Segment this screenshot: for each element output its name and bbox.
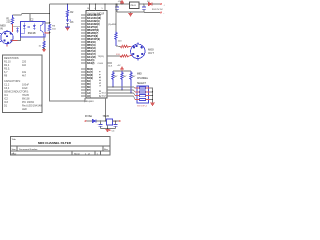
svg-text:RB6(12): RB6(12) [87,48,96,50]
svg-text:RB5(11): RB5(11) [87,45,96,47]
regulator IC1 78L05 TO92 [107,119,113,125]
svg-text:A5(: A5( [87,95,91,98]
wire RB6 row [107,92,134,94]
resistor R10 red [120,55,132,57]
svg-text:RA0/AN0(17): RA0/AN0(17) [87,14,101,17]
wire opto pins right [30,14,50,23]
diode D4 [92,119,96,122]
svg-text:78L05: 78L05 [103,116,110,118]
svg-text:B0(6): B0(6) [87,69,93,71]
svg-text:+5V: +5V [117,65,121,67]
svg-text:78L05: 78L05 [130,5,137,7]
pin stubs left IC3 [81,15,86,96]
wire RB5 row [107,89,134,91]
wire to regulator [96,120,107,122]
svg-text:SELECT: SELECT [137,83,147,85]
svg-text:A4(: A4( [87,92,91,95]
ground indicator [65,27,70,31]
wire battery input [87,120,93,122]
IC3 PIC16F84 microcontroller [86,11,107,99]
wire RB7 row [107,95,134,97]
pin stub right OSC [107,62,112,64]
pin labels left IC3 [87,14,101,98]
svg-text:RB1/RX(7): RB1/RX(7) [87,33,98,35]
wire DIN pin stubs [7,41,18,47]
wire regulator out [113,120,120,122]
resistor R3 pull-up on feed [48,24,50,30]
wire DC return [144,12,161,14]
svg-text:4k7: 4k7 [123,76,127,78]
resistor R4 pulldown [43,41,45,48]
wire RB4 row [107,86,134,88]
wire opto top feed [13,14,50,16]
ground top power [128,12,133,17]
svg-text:RA3(2): RA3(2) [87,62,95,65]
label MIDI CHANNEL SELECT [137,74,149,85]
diode D1 protection [16,27,19,33]
svg-text:D1: D1 [4,105,8,108]
regulator IC4 78L05 box [130,2,140,9]
pin stubs top IC3 [90,4,106,11]
power VCC symbol top [121,1,124,4]
resistor R6 [121,71,123,90]
svg-text:RA2(1): RA2(1) [87,59,95,62]
connector J2 MIDI OUT DIN-5 [131,42,145,60]
svg-text:1k: 1k [39,46,42,48]
capacitor C2 [143,4,145,12]
svg-text:RA0(17): RA0(17) [87,53,96,56]
wire regulator gnd pin [107,125,109,129]
svg-text:OUT: OUT [148,51,154,55]
wire IC bottom to bottom rail [105,98,107,121]
connector J1 MIDI IN DIN-5 [0,30,13,45]
ground switch [150,103,155,107]
switch pins red [135,88,150,99]
wire pullup rail [113,70,131,72]
junction dots opto [49,13,51,34]
junction dot rail x67.5 [67,3,68,4]
ground bottom [105,129,110,133]
resistor R10a red [121,45,132,47]
opto internal photodiode [33,24,36,31]
svg-text:CLK0: CLK0 [98,63,104,65]
LED D3 indicator [66,19,71,23]
svg-text:MIDI: MIDI [137,74,142,76]
svg-text:RB3/CCP(9): RB3/CCP(9) [87,39,100,41]
switch S1 DIP-4 [137,86,149,103]
opto internal LED [21,23,30,34]
svg-text:CLK: CLK [108,66,113,68]
svg-text:B4(: B4( [87,80,91,83]
terminal - DC in [160,12,162,14]
svg-text:D3: D3 [70,21,74,24]
wire +5V drop to MIDI OUT [115,4,117,32]
svg-text:1k0: 1k0 [52,29,56,31]
terminal battery + [85,120,87,122]
resistor R5 [112,71,114,87]
svg-text:R9: R9 [4,75,8,78]
svg-text:4k7: 4k7 [114,76,118,78]
svg-text:-: - [164,13,165,15]
resistor R2 indicator [66,4,68,19]
svg-text:4: 4 [95,8,97,10]
svg-text:SW DIP-4: SW DIP-4 [137,106,148,108]
ground opto resistor [43,48,45,50]
svg-text:Document Number:: Document Number: [19,148,38,151]
svg-text:Date:: Date: [12,152,18,155]
svg-text:B6(: B6( [87,87,91,89]
wire left vertical feed [50,4,86,101]
svg-text:R2: R2 [70,11,74,14]
erc marker pad [109,129,111,131]
svg-text:+: + [97,124,99,126]
wire ground rail top [117,11,144,13]
svg-text:Title:: Title: [12,138,17,141]
junction dots pullups [112,86,131,93]
svg-text:4k7: 4k7 [22,75,27,78]
wire R9 to DIN [116,45,121,48]
svg-text:(MIDI)/RX: (MIDI)/RX [84,101,94,103]
svg-text:6N138: 6N138 [28,31,36,35]
svg-text:+: + [164,4,166,6]
svg-text:B5(: B5( [87,84,91,86]
wire +5V top rail [50,3,161,5]
wire opto emitter down [43,37,45,41]
svg-text:220: 220 [118,41,122,43]
svg-text:RA3/AN3(2): RA3/AN3(2) [87,23,100,26]
svg-text:B1(7): B1(7) [87,72,93,74]
svg-text:RA2/AN2(1): RA2/AN2(1) [87,20,100,23]
resistor R1 [11,15,13,24]
svg-text:SC1: SC1 [102,92,107,94]
svg-text:5: 5 [102,8,104,10]
svg-text:220: 220 [6,21,11,24]
capacitor C1 [116,4,118,12]
capacitor C4 [115,121,117,129]
resistor R7 [130,71,132,93]
title block [11,137,111,156]
svg-text:B7(: B7( [87,90,91,92]
svg-text:SC2: SC2 [102,95,107,97]
svg-text:1k0: 1k0 [22,64,27,67]
wire DIN to opto [13,27,21,41]
opto internal transistor [40,22,44,38]
svg-text:B3(9): B3(9) [87,78,93,80]
wire jogs to switch pins [134,87,136,99]
svg-text:Sheet: Sheet [74,152,80,155]
svg-text:9V-12V DC: 9V-12V DC [152,9,163,11]
svg-text:RA1(18): RA1(18) [87,56,96,59]
svg-text:CHANNEL: CHANNEL [137,77,149,80]
svg-text:RB2/TX(8): RB2/TX(8) [87,36,98,38]
svg-text:RB7(13): RB7(13) [87,51,96,53]
capacitor C3 [100,121,102,129]
svg-text:TX(11): TX(11) [98,56,105,58]
svg-text:C4: C4 [112,130,116,132]
wire red R1 to DIN pin [12,24,14,32]
svg-text:9V Bat: 9V Bat [85,115,92,118]
svg-text:RB4(10): RB4(10) [87,41,96,44]
terminal + DC in [160,3,162,5]
svg-text:RA1/AN1(18): RA1/AN1(18) [87,17,101,20]
wire switch common [150,88,153,103]
wire LED to gnd [67,23,69,27]
wire TX to MIDI OUT [107,55,120,57]
svg-text:RB0/INT(6): RB0/INT(6) [87,30,99,32]
svg-text:B2(8): B2(8) [87,75,93,77]
svg-text:MIDI CHANNEL FILTER: MIDI CHANNEL FILTER [38,141,72,145]
svg-text:R3: R3 [52,26,56,28]
resistor R9 [115,32,117,47]
svg-text:RA4/T0(3): RA4/T0(3) [87,26,98,29]
svg-text:4k7: 4k7 [132,76,136,78]
notes box parts list [3,55,43,113]
svg-text:R10: R10 [116,54,121,56]
wire gnd rail bottom [101,128,116,130]
svg-text:LED: LED [22,108,27,111]
svg-text:IN: IN [0,27,3,31]
